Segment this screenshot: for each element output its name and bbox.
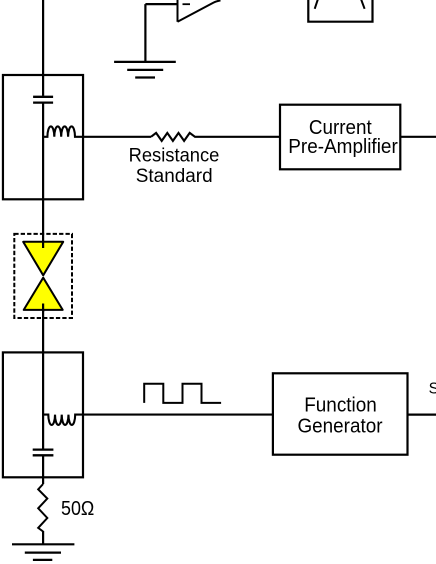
svg-text:Sync: Sync xyxy=(429,380,436,397)
svg-text:Function: Function xyxy=(304,395,377,417)
svg-text:Standard: Standard xyxy=(136,166,213,187)
svg-text:Resistance: Resistance xyxy=(129,146,220,167)
svg-text:Generator: Generator xyxy=(298,416,383,438)
svg-text:Pre-Amplifier: Pre-Amplifier xyxy=(288,136,398,158)
svg-text:50Ω: 50Ω xyxy=(61,498,94,520)
